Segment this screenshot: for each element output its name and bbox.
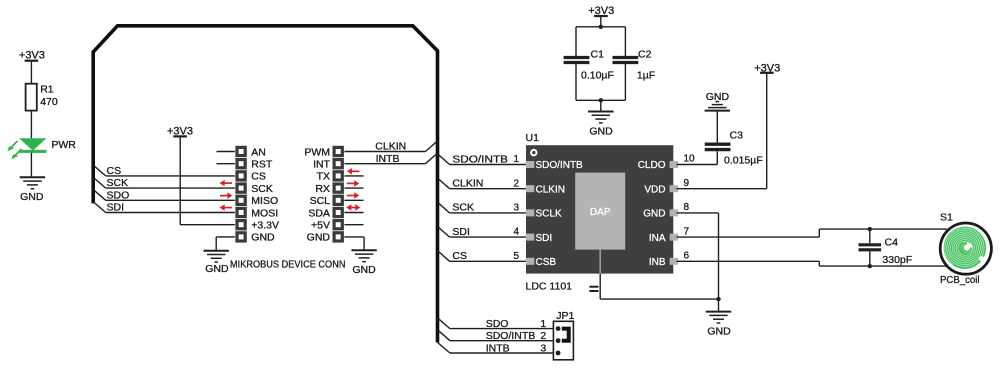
wire RST stub bbox=[217, 163, 235, 165]
wire LED to GND bbox=[30, 153, 32, 177]
junction bbox=[599, 25, 603, 29]
wire top rail bbox=[576, 27, 625, 56]
svg-text:INTB: INTB bbox=[486, 342, 510, 354]
svg-text:7: 7 bbox=[684, 226, 690, 237]
svg-text:SDO/INTB: SDO/INTB bbox=[486, 330, 536, 342]
svg-text:CLKIN: CLKIN bbox=[375, 141, 406, 153]
svg-text:C1: C1 bbox=[591, 49, 605, 61]
svg-text:GND: GND bbox=[307, 232, 331, 244]
ground GND (U1) bbox=[706, 312, 731, 323]
svg-text:6: 6 bbox=[684, 251, 690, 262]
svg-text:C4: C4 bbox=[885, 237, 899, 249]
wire net SDI from border to U1 pin 4 bbox=[438, 227, 527, 237]
U1 right pin numbers 10..6 bbox=[684, 154, 696, 262]
svg-text:INA: INA bbox=[649, 233, 666, 244]
svg-text:SCL: SCL bbox=[310, 195, 331, 207]
svg-text:2: 2 bbox=[540, 330, 546, 342]
svg-text:MIKROBUS DEVICE CONN: MIKROBUS DEVICE CONN bbox=[230, 258, 346, 270]
net-tie mark bbox=[589, 287, 598, 291]
LED PWR bbox=[7, 138, 46, 159]
svg-text:PCB_coil: PCB_coil bbox=[940, 274, 980, 286]
svg-text:5: 5 bbox=[513, 251, 519, 262]
svg-text:SCLK: SCLK bbox=[536, 209, 562, 220]
wire net INTB to JP1 pin 3 bbox=[438, 342, 554, 353]
wire net SCK from border to U1 pin 3 bbox=[438, 203, 527, 213]
svg-text:0.015µF: 0.015µF bbox=[724, 154, 763, 166]
svg-text:GND: GND bbox=[707, 325, 731, 337]
svg-text:8: 8 bbox=[684, 202, 690, 213]
svg-text:SDO: SDO bbox=[107, 189, 130, 201]
svg-text:CSB: CSB bbox=[536, 257, 557, 268]
svg-text:SDI: SDI bbox=[107, 202, 125, 214]
left header pin labels bbox=[251, 146, 279, 243]
svg-text:GND: GND bbox=[205, 263, 229, 275]
svg-text:SCK: SCK bbox=[452, 202, 474, 214]
jumper JP1 body bbox=[553, 321, 573, 360]
ground (inverted, C3) bbox=[705, 102, 730, 111]
svg-text:INB: INB bbox=[649, 257, 666, 268]
svg-text:AN: AN bbox=[251, 146, 266, 158]
wire DAP to GND bbox=[600, 250, 718, 300]
svg-text:RX: RX bbox=[315, 183, 330, 195]
U1 left pin pads bbox=[526, 161, 535, 265]
svg-text:R1: R1 bbox=[40, 84, 54, 96]
svg-text:+5V: +5V bbox=[311, 220, 330, 232]
svg-text:SDO/INTB: SDO/INTB bbox=[452, 153, 508, 165]
svg-text:+3V3: +3V3 bbox=[19, 49, 45, 61]
wire net SDO to JP1 pin 1 bbox=[438, 318, 553, 328]
wire left header GND bbox=[216, 237, 235, 251]
wire GND pin 8 bbox=[677, 213, 719, 299]
svg-text:CS: CS bbox=[107, 165, 122, 177]
svg-text:MISO: MISO bbox=[251, 195, 278, 207]
svg-text:SDA: SDA bbox=[308, 207, 330, 219]
wire stubs TX RX SCL SDA +5V bbox=[344, 176, 363, 225]
svg-text:INT: INT bbox=[313, 159, 331, 171]
svg-text:GND: GND bbox=[589, 125, 613, 137]
wire net SDO from border to header bbox=[94, 190, 235, 200]
svg-text:GND: GND bbox=[251, 232, 275, 244]
wire net CLKIN from border to U1 pin 2 bbox=[438, 179, 527, 189]
junction bbox=[868, 264, 872, 268]
svg-text:PWR: PWR bbox=[51, 139, 76, 151]
svg-text:CS: CS bbox=[251, 171, 266, 183]
connector mikroBUS left header (AN..GND) bbox=[235, 146, 246, 243]
wire net SDO/INTB from border to U1 pin 1 bbox=[438, 154, 527, 164]
wire net SDI from border to header bbox=[94, 202, 235, 212]
connector mikroBUS right header (PWM..GND) bbox=[333, 146, 344, 243]
capacitor C3 bbox=[705, 144, 731, 149]
red direction arrows (right header) bbox=[346, 168, 360, 211]
svg-text:+3.3V: +3.3V bbox=[251, 220, 279, 232]
svg-text:PWM: PWM bbox=[304, 146, 330, 158]
op IC U1 LDC1101 body bbox=[526, 145, 673, 273]
ground GND (decoupling) bbox=[588, 112, 613, 123]
svg-text:330pF: 330pF bbox=[882, 254, 912, 266]
wire net CS from border to header bbox=[94, 166, 235, 176]
svg-text:CLDO: CLDO bbox=[638, 160, 666, 171]
capacitor C1 bbox=[564, 58, 590, 63]
wire +3V3 to +3.3V pin bbox=[180, 136, 235, 224]
wire net SCK from border to header bbox=[94, 178, 235, 188]
svg-text:3: 3 bbox=[540, 342, 546, 354]
svg-text:S1: S1 bbox=[940, 211, 953, 223]
svg-text:TX: TX bbox=[317, 171, 330, 183]
capacitor C2 bbox=[613, 58, 639, 63]
svg-text:3: 3 bbox=[513, 203, 519, 214]
svg-text:INTB: INTB bbox=[376, 153, 400, 165]
pin-1 indicator circle bbox=[531, 150, 536, 155]
wire CLKIN from PWM pin to border bbox=[344, 141, 437, 151]
junction bbox=[599, 98, 603, 102]
svg-text:RST: RST bbox=[251, 159, 273, 171]
svg-text:MOSI: MOSI bbox=[251, 207, 278, 219]
right header pin labels bbox=[304, 146, 330, 243]
svg-text:SCK: SCK bbox=[107, 177, 129, 189]
wire AN stub bbox=[217, 151, 235, 153]
wire right header GND bbox=[344, 237, 364, 250]
svg-text:C2: C2 bbox=[638, 49, 652, 61]
junction bbox=[868, 227, 872, 231]
svg-text:JP1: JP1 bbox=[556, 310, 574, 322]
svg-text:GND: GND bbox=[352, 264, 376, 276]
ground GND (left header) bbox=[204, 251, 229, 262]
wire +3V3 to VDD pin 9 bbox=[677, 73, 767, 189]
svg-text:SCK: SCK bbox=[251, 183, 273, 195]
svg-text:GND: GND bbox=[20, 191, 44, 203]
svg-text:SDI: SDI bbox=[536, 233, 553, 244]
DAP thermal pad bbox=[575, 173, 625, 250]
sensor S1 PCB coil bbox=[940, 223, 991, 274]
svg-text:DAP: DAP bbox=[590, 207, 611, 218]
junction bbox=[716, 297, 720, 301]
wire +3V3 down bbox=[600, 16, 602, 27]
svg-text:4: 4 bbox=[513, 227, 519, 238]
svg-text:C3: C3 bbox=[730, 129, 744, 141]
wire junction to ground bbox=[718, 299, 720, 312]
wire net SDO/INTB to JP1 pin 2 bbox=[438, 330, 553, 341]
svg-text:SDO/INTB: SDO/INTB bbox=[536, 160, 584, 171]
svg-text:0.10µF: 0.10µF bbox=[581, 70, 614, 82]
U1 left pin names bbox=[536, 160, 584, 268]
ground GND (LED branch) bbox=[20, 177, 45, 188]
svg-text:1: 1 bbox=[540, 318, 546, 330]
wire INTB from INT pin to border bbox=[344, 154, 437, 164]
svg-text:470: 470 bbox=[40, 96, 58, 108]
svg-text:VDD: VDD bbox=[644, 184, 665, 195]
wire INA pin 7 to coil bbox=[677, 229, 948, 237]
U1 right pin pads bbox=[670, 161, 679, 265]
svg-text:U1: U1 bbox=[526, 132, 540, 144]
svg-text:GND: GND bbox=[643, 209, 665, 220]
svg-text:SDI: SDI bbox=[452, 226, 470, 238]
wire +3V3 to R1 bbox=[30, 61, 32, 84]
svg-text:LDC 1101: LDC 1101 bbox=[526, 280, 573, 292]
U1 right pin names bbox=[638, 160, 666, 268]
svg-text:CLKIN: CLKIN bbox=[452, 178, 483, 190]
wire INB pin 6 to coil bbox=[677, 261, 948, 266]
wire C3 to CLDO pin 10 bbox=[677, 151, 718, 164]
red direction arrows (left header) bbox=[220, 180, 233, 211]
svg-text:2: 2 bbox=[513, 178, 519, 189]
wire bottom rail bbox=[576, 64, 625, 111]
resistor R1 bbox=[26, 84, 37, 111]
capacitor C4 bbox=[859, 229, 882, 266]
svg-text:CLKIN: CLKIN bbox=[536, 184, 565, 195]
svg-text:1µF: 1µF bbox=[637, 70, 655, 82]
wire net CS from border to U1 pin 5 bbox=[438, 251, 527, 261]
mikroBUS socket outline (thick open border) bbox=[93, 26, 437, 343]
svg-text:CS: CS bbox=[452, 250, 467, 262]
ground GND (right header) bbox=[351, 250, 376, 261]
svg-text:SDO: SDO bbox=[486, 318, 509, 330]
svg-text:10: 10 bbox=[684, 154, 696, 165]
svg-text:1: 1 bbox=[513, 154, 519, 165]
svg-text:9: 9 bbox=[684, 178, 690, 189]
wire GND to C3 bbox=[716, 111, 718, 143]
wire R1 to LED bbox=[30, 111, 32, 139]
